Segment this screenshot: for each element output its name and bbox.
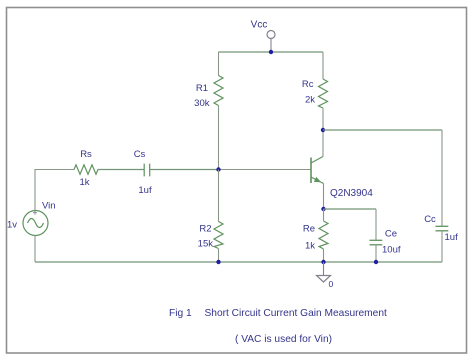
svg-text:Re: Re xyxy=(303,224,315,235)
wire Cc bottom lead xyxy=(441,231,443,262)
node emitter junction dot xyxy=(321,207,325,211)
node ground dot xyxy=(321,260,325,264)
svg-text:0: 0 xyxy=(329,279,334,289)
svg-text:30k: 30k xyxy=(194,98,210,109)
wire Rc top lead xyxy=(322,52,324,79)
svg-text:10uf: 10uf xyxy=(382,245,401,256)
svg-text:1uf: 1uf xyxy=(445,232,459,243)
resistor Re xyxy=(319,221,328,249)
wire emitter vertical xyxy=(323,184,325,210)
wire R2 bottom lead xyxy=(218,249,220,263)
svg-text:Q2N3904: Q2N3904 xyxy=(330,188,373,199)
svg-text:Fig 1: Fig 1 xyxy=(169,308,192,319)
capacitor Ce xyxy=(370,239,383,241)
svg-text:( VAC is used for Vin): ( VAC is used for Vin) xyxy=(235,334,332,345)
wire emitter to Ce xyxy=(324,208,377,210)
node R2 bottom dot xyxy=(216,260,220,264)
svg-text:15k: 15k xyxy=(198,239,214,250)
node base junction dot xyxy=(216,167,220,171)
wire Ce top lead xyxy=(375,209,377,240)
wire Vcc stub xyxy=(270,39,272,53)
wire Cs to base node xyxy=(150,169,219,171)
resistor Rc xyxy=(319,79,328,108)
capacitor Cs xyxy=(143,164,145,177)
wire Cc top lead xyxy=(441,130,443,226)
svg-text:R1: R1 xyxy=(196,83,208,94)
transistor Q1 emitter arrow xyxy=(314,177,321,182)
resistor R2 xyxy=(214,222,223,249)
wire input top from source xyxy=(35,170,74,211)
svg-text:1k: 1k xyxy=(305,241,315,252)
svg-text:1uf: 1uf xyxy=(138,185,152,196)
wire top rail xyxy=(219,51,324,53)
wire R1 bottom lead xyxy=(218,106,220,170)
svg-text:2k: 2k xyxy=(305,95,315,106)
svg-text:Cs: Cs xyxy=(134,149,146,160)
node Vcc terminal circle xyxy=(267,31,275,39)
svg-text:1k: 1k xyxy=(79,177,89,188)
wire Rs to Cs xyxy=(98,169,144,171)
node Vcc junction dot xyxy=(269,50,273,54)
svg-text:Rc: Rc xyxy=(302,79,314,90)
svg-text:Vin: Vin xyxy=(42,201,56,212)
ground symbol xyxy=(317,276,331,283)
wire bottom bus xyxy=(35,261,442,263)
svg-text:Rs: Rs xyxy=(80,149,92,160)
svg-text:Cc: Cc xyxy=(424,214,436,225)
resistor Rs xyxy=(74,165,98,174)
voltage source Vin xyxy=(23,211,48,236)
wire Ce bottom lead xyxy=(375,245,377,262)
transistor Q1 collector diagonal xyxy=(311,157,323,164)
transistor Q1 base bar xyxy=(310,158,312,184)
svg-text:1v: 1v xyxy=(7,220,17,231)
svg-text:Vcc: Vcc xyxy=(251,20,268,31)
wire base node to transistor xyxy=(219,169,312,171)
wire Re top lead xyxy=(323,209,325,221)
node Ce bottom dot xyxy=(374,260,378,264)
wire source bottom lead xyxy=(34,236,36,263)
plus mark xyxy=(33,211,37,215)
svg-text:R2: R2 xyxy=(199,224,211,235)
resistor R1 xyxy=(214,76,223,106)
svg-text:Short Circuit Current Gain Mea: Short Circuit Current Gain Measurement xyxy=(205,308,387,319)
wire collector vertical xyxy=(322,130,324,157)
wire R1 top lead xyxy=(218,52,220,76)
wire collector rail to Cc xyxy=(323,129,442,131)
capacitor Cc xyxy=(436,225,449,227)
wire R2 top lead xyxy=(218,170,220,222)
svg-text:Ce: Ce xyxy=(385,229,397,240)
wire Rc bottom lead xyxy=(322,108,324,130)
transistor Q1 emitter diagonal xyxy=(311,177,324,184)
wire Re bottom lead xyxy=(323,249,325,262)
ground stub xyxy=(323,262,325,276)
node collector junction dot xyxy=(321,128,325,132)
